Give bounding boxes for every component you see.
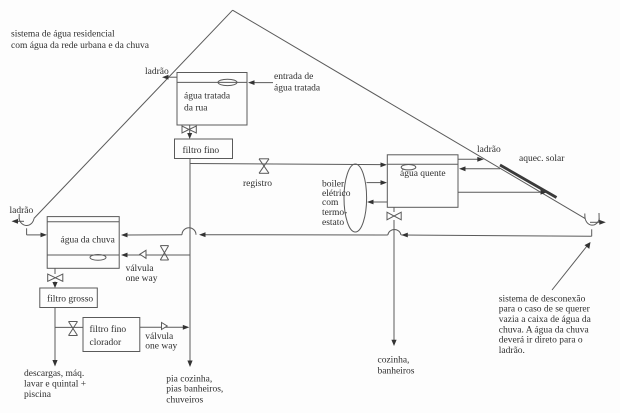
svg-text:água tratada: água tratada: [274, 84, 321, 94]
valve V5 on clorador branch: [69, 322, 78, 336]
long pipe: roof water to rain tank (right segment): [401, 235, 591, 236]
right disconnection hook: [585, 213, 606, 225]
long pipe: left segment into rain tank: [126, 234, 182, 236]
note sistema de desconexão: [499, 294, 592, 356]
svg-text:da rua: da rua: [184, 104, 208, 114]
svg-text:descargas, máq.: descargas, máq.: [24, 369, 84, 379]
pipe: hook drop into rain tank: [27, 228, 47, 237]
svg-text:água da chuva: água da chuva: [61, 236, 116, 246]
valve V2 under T3: [387, 212, 401, 220]
svg-text:chuva. A água da chuva: chuva. A água da chuva: [499, 325, 590, 335]
label boiler elétrico com termo-estato: [322, 179, 351, 228]
pipe: drop from hook to long return line: [591, 229, 593, 236]
pipe: hot supply down to cozinha/banheiros: [391, 207, 396, 346]
svg-text:pias banheiros,: pias banheiros,: [166, 385, 223, 395]
boiler ellipse: [344, 164, 367, 232]
svg-text:filtro grosso: filtro grosso: [47, 293, 93, 304]
svg-text:ladrão.: ladrão.: [499, 346, 525, 356]
pipe: T3 overflow to roof: [458, 157, 484, 162]
label descargas máq lavar e quintal + piscina: [24, 369, 86, 400]
roof right slope: [233, 10, 586, 218]
svg-text:clorador: clorador: [90, 338, 122, 348]
svg-text:vazia a caixa de água da: vazia a caixa de água da: [499, 315, 592, 325]
valve V1 under T1: [182, 126, 196, 133]
bridge hop over cold riser: [182, 228, 196, 235]
filter box filtro fino clorador: [83, 318, 140, 352]
title text: [11, 30, 150, 51]
pipe: rain riser down (vertical x=55): [54, 308, 56, 362]
left disconnection hook: [12, 214, 35, 226]
long pipe: middle segment: [203, 234, 388, 236]
svg-text:filtro fino: filtro fino: [90, 324, 127, 335]
pipe: city make-up into T2 (one way): [121, 253, 190, 258]
svg-text:válvula: válvula: [145, 332, 174, 342]
tank T3 água quente: [387, 155, 458, 208]
svg-text:cozinha,: cozinha,: [378, 356, 410, 366]
filter box filtro fino: [175, 139, 233, 159]
filter box filtro grosso: [40, 288, 98, 308]
pipe: tank T3 to boiler (return): [367, 200, 387, 205]
svg-text:válvula: válvula: [126, 264, 155, 274]
svg-text:ladrão: ladrão: [477, 145, 501, 155]
svg-text:one way: one way: [145, 342, 177, 352]
valve V4 under T2: [48, 274, 63, 281]
svg-text:sistema de água residencial: sistema de água residencial: [11, 30, 115, 40]
svg-text:ladrão: ladrão: [10, 206, 34, 216]
bridge hop over hot riser: [388, 229, 401, 235]
valve registro: [259, 159, 269, 174]
svg-text:sistema de desconexão: sistema de desconexão: [499, 294, 586, 304]
flow arrow into tank T2: [121, 233, 128, 238]
pipe: V1 to filtro fino: [187, 125, 192, 139]
svg-text:com: com: [322, 198, 339, 208]
pipe: solar heater hot return to T3: [459, 166, 500, 171]
check valve (one way): [140, 250, 146, 258]
svg-text:aquec. solar: aquec. solar: [519, 154, 565, 164]
tank T1 água tratada da rua: [177, 73, 247, 126]
svg-text:filtro fino: filtro fino: [183, 145, 220, 156]
svg-text:água tratada: água tratada: [184, 91, 231, 101]
svg-text:registro: registro: [243, 179, 272, 189]
arrow to descargas: [52, 360, 57, 367]
svg-text:boiler: boiler: [322, 179, 345, 189]
pipe: tank T1 overflow to roof: [162, 75, 177, 80]
roof left slope: [34, 10, 233, 218]
label entrada de água tratada: [274, 72, 321, 94]
svg-text:chuveiros: chuveiros: [166, 395, 203, 405]
svg-text:estato: estato: [322, 218, 344, 228]
pipe: branch to filtro fino clorador: [55, 326, 83, 328]
valve V3 on make-up line: [160, 246, 168, 260]
pipe: T3 cold feed to solar heater: [458, 190, 547, 195]
label válvula one way (lower): [145, 332, 177, 352]
svg-text:entrada de: entrada de: [274, 72, 313, 82]
flow arrow: [199, 232, 206, 237]
solar heater panel aquec. solar: [500, 165, 557, 198]
svg-text:pia cozinha,: pia cozinha,: [166, 374, 212, 384]
svg-text:para o caso de se querer: para o caso de se querer: [499, 305, 591, 315]
pipe: cold line to boiler/água quente: [190, 162, 387, 167]
svg-text:água quente: água quente: [400, 169, 446, 179]
pipe: boiler to tank T3 (hot): [367, 180, 388, 185]
pipe: clorador to cold riser: [140, 325, 190, 330]
svg-text:ladrão: ladrão: [145, 67, 169, 77]
svg-text:piscina: piscina: [24, 390, 52, 400]
label cozinha banheiros: [378, 356, 415, 377]
pipe: T2 to filtro grosso: [52, 268, 57, 288]
svg-text:one way: one way: [126, 274, 158, 284]
arrow to pia cozinha: [187, 361, 192, 368]
label pia cozinha pias banheiros chuveiros: [166, 374, 223, 405]
pipe: city water inlet into T1: [248, 80, 273, 85]
label válvula one way (upper): [126, 264, 158, 284]
svg-text:com água da rede urbana e da c: com água da rede urbana e da chuva: [11, 41, 150, 51]
svg-text:deverá ir direto para o: deverá ir direto para o: [499, 336, 583, 346]
pipe: main cold riser (vertical x=190): [189, 159, 191, 363]
annotation arrow to hook: [552, 242, 591, 290]
tank T2 água da chuva: [47, 217, 119, 269]
check valve (one way) on clorador outlet: [162, 323, 168, 330]
flow arrow: [401, 233, 408, 238]
svg-text:banheiros: banheiros: [378, 367, 415, 377]
svg-text:termo-: termo-: [322, 208, 347, 218]
svg-text:lavar e quintal +: lavar e quintal +: [24, 379, 86, 389]
